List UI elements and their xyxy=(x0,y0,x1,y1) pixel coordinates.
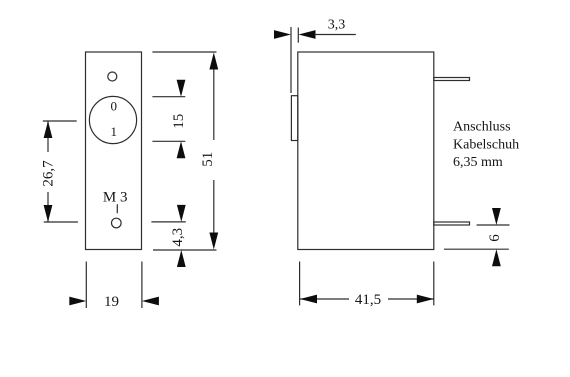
dimension 19 extension lines xyxy=(86,262,142,309)
svg-text:6,35 mm: 6,35 mm xyxy=(453,155,503,170)
front view body outline xyxy=(86,52,142,250)
top mounting hole xyxy=(108,72,117,81)
dimension 41,5 extension lines xyxy=(300,262,434,306)
svg-text:1: 1 xyxy=(111,124,118,139)
switch knob circle xyxy=(89,96,136,143)
svg-text:Kabelschuh: Kabelschuh xyxy=(453,137,519,152)
side view body outline xyxy=(298,52,434,250)
dimension 4,3 arrow up xyxy=(177,250,186,267)
svg-text:15: 15 xyxy=(171,114,187,129)
dimension 3,3 arrow right xyxy=(274,30,291,39)
svg-text:3,3: 3,3 xyxy=(328,18,346,33)
svg-text:4,3: 4,3 xyxy=(170,228,186,247)
bottom mounting hole xyxy=(112,218,122,228)
dimension 6 arrow up xyxy=(492,249,501,266)
svg-text:51: 51 xyxy=(200,152,216,167)
dimension 26,7 arrow down xyxy=(44,205,53,222)
dimension 41,5 arrow left xyxy=(300,295,317,304)
dimension 51 extension ticks xyxy=(152,52,216,250)
dimension 41,5 arrow right xyxy=(417,295,434,304)
dimension 26,7 extension ticks xyxy=(43,121,78,222)
dimension 3,3 arrow left xyxy=(299,30,316,39)
svg-text:41,5: 41,5 xyxy=(355,292,381,308)
dimension 19 arrow left xyxy=(142,297,159,306)
svg-text:19: 19 xyxy=(104,294,119,310)
dimension 3,3 leader line xyxy=(315,34,356,36)
dimension 51 arrow up xyxy=(209,53,218,70)
top terminal tab xyxy=(434,78,470,81)
dimension 15 extension ticks xyxy=(152,97,185,142)
dimension 26,7 line xyxy=(47,121,49,222)
svg-text:26,7: 26,7 xyxy=(41,160,57,187)
dimension 3,3 extension line xyxy=(290,27,292,93)
svg-text:M 3: M 3 xyxy=(103,190,128,206)
dimension 41,5 line xyxy=(300,298,434,300)
svg-text:0: 0 xyxy=(111,99,118,114)
dimension 26,7 arrow up xyxy=(44,121,53,138)
dimension 4,3 arrow down xyxy=(177,205,186,222)
dimension 4,3 extension tick xyxy=(151,221,185,223)
dimension 15 arrow up xyxy=(177,141,186,158)
dimension 19 arrow right xyxy=(69,297,86,306)
side view left bump xyxy=(291,96,297,141)
dimension 51 arrow down xyxy=(209,233,218,250)
bottom terminal tab xyxy=(434,222,470,225)
dimension 3,3 tick xyxy=(297,28,299,43)
dimension 51 line xyxy=(213,66,215,235)
dimension 6 arrow down xyxy=(492,208,501,225)
leader line M3 xyxy=(116,204,118,213)
svg-text:Anschluss: Anschluss xyxy=(453,120,511,135)
dimension 6 extension ticks xyxy=(444,225,510,249)
dimension 15 arrow down xyxy=(177,80,186,97)
svg-text:6: 6 xyxy=(487,234,503,242)
